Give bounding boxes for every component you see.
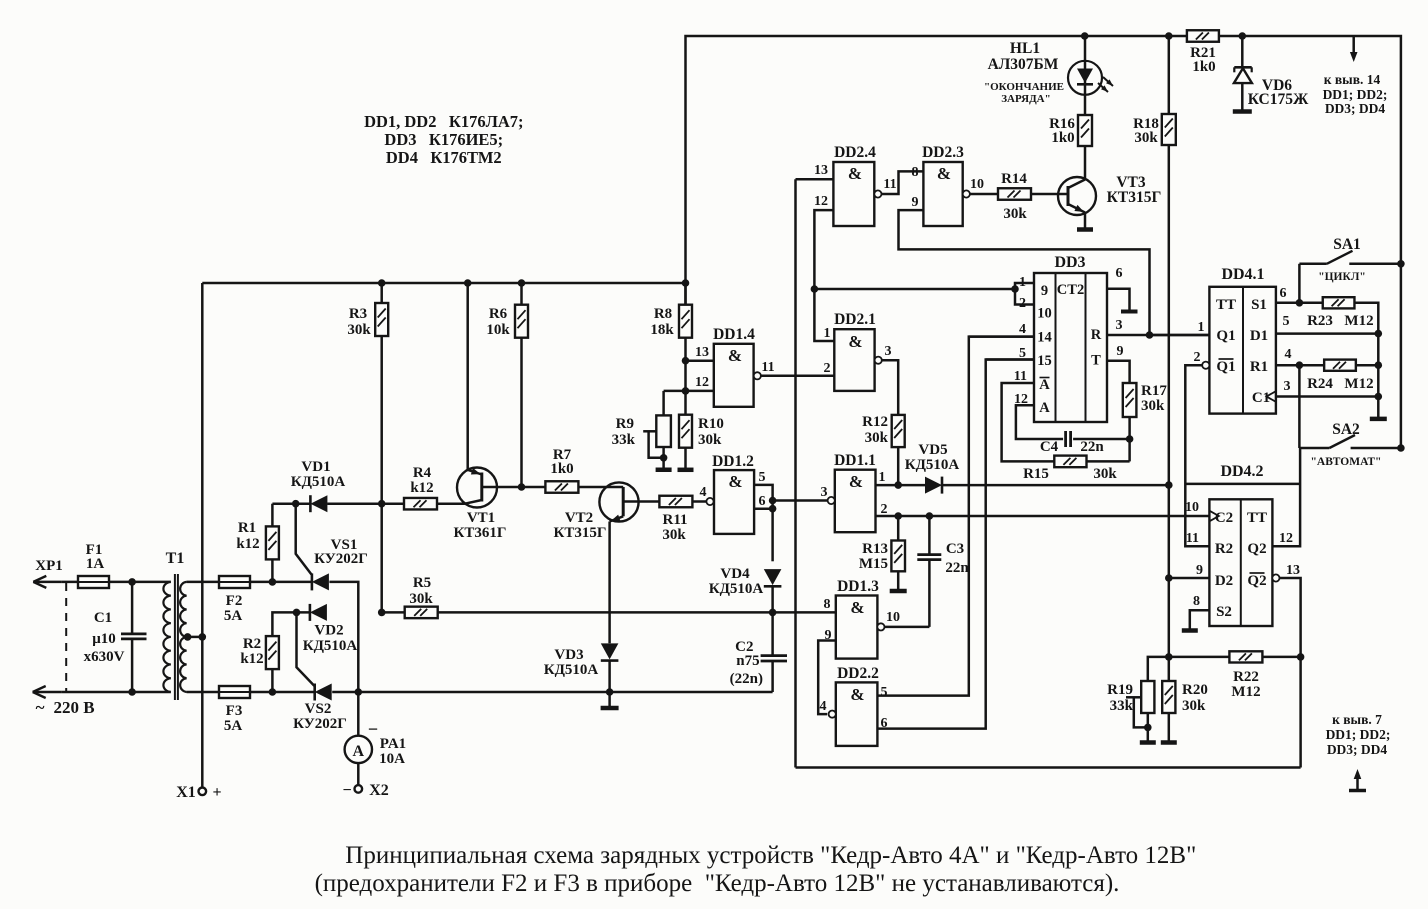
- svg-text:VS2: VS2: [305, 701, 332, 717]
- wire VS1 anode down: [329, 582, 358, 692]
- wire DD3 pins1-2 bracket: [1015, 283, 1034, 305]
- dynamic input C2 DD4.2: [1209, 511, 1218, 522]
- node R3 top: [378, 279, 386, 287]
- svg-text:DD2.4: DD2.4: [834, 144, 876, 161]
- resistor R20: [1162, 681, 1175, 741]
- svg-text:DD1, DD2 К176ЛА7;: DD1, DD2 К176ЛА7;: [364, 112, 523, 131]
- svg-text:10: 10: [1037, 306, 1052, 322]
- node VT1 emitter rail: [464, 279, 472, 287]
- ground DD4.2 pin8: [1182, 628, 1198, 633]
- label VD1: [291, 459, 346, 490]
- ground R20: [1161, 740, 1177, 745]
- svg-text:КД510А: КД510А: [291, 474, 346, 490]
- wire left vertical rail to X1: [201, 283, 204, 788]
- svg-text:18k: 18k: [650, 322, 674, 338]
- svg-text:4: 4: [1285, 347, 1292, 362]
- node pin6 tie: [769, 505, 777, 513]
- svg-text:30k: 30k: [409, 591, 433, 607]
- label pin5 DD2.2: [881, 685, 888, 700]
- node R6 bottom junction: [518, 483, 526, 491]
- wire DD1.1 pin2 long row to DD4.2: [876, 515, 1210, 518]
- resistor R19: [1141, 681, 1154, 713]
- svg-text:11: 11: [761, 360, 774, 375]
- resistor R16: [1078, 36, 1092, 146]
- node R9 bottom: [660, 447, 668, 469]
- node pin4/SA2: [1296, 361, 1304, 369]
- label R11 30k: [662, 512, 687, 543]
- wire secondary top to F2: [187, 581, 219, 584]
- wire long bus vertical: [794, 179, 797, 767]
- label pin11 DD1.4: [761, 360, 774, 375]
- svg-text:k12: k12: [236, 536, 259, 552]
- wire DD4.2 pin9: [1169, 577, 1210, 580]
- svg-text:C1: C1: [94, 610, 112, 626]
- svg-text:F3: F3: [226, 703, 243, 719]
- svg-text:M12: M12: [1344, 313, 1373, 329]
- node DD1.4 pin12: [682, 387, 690, 395]
- label DD1.1: [834, 452, 876, 469]
- labels DD4.2 right: [1247, 510, 1267, 589]
- labels DD4.2 left: [1215, 510, 1233, 620]
- svg-text:R13: R13: [862, 541, 888, 557]
- svg-text:2: 2: [824, 361, 831, 376]
- svg-text:Принципиальная схема зарядных: Принципиальная схема зарядных устройств …: [345, 842, 1196, 869]
- svg-text:22n: 22n: [1080, 439, 1104, 455]
- wire Q2 loop to SA2 node: [1185, 483, 1300, 486]
- node pin3/col: [1375, 393, 1383, 401]
- svg-text:4: 4: [1019, 322, 1026, 337]
- svg-text:1k0: 1k0: [1051, 130, 1074, 146]
- label pin6 DD2.2: [881, 716, 888, 731]
- wire DD2.2 pin5 to DD3 pin4: [877, 337, 1034, 696]
- svg-text:R4: R4: [413, 465, 432, 481]
- wire DD4.2 pin13 down: [1280, 578, 1301, 768]
- label VT3: [1107, 174, 1162, 206]
- svg-text:R2: R2: [1215, 541, 1233, 557]
- label DD4.1: [1221, 266, 1264, 283]
- label R16 1k0: [1049, 116, 1075, 146]
- node R6 top: [518, 279, 526, 287]
- wire SA2 column to pin12: [1272, 448, 1300, 546]
- label pin3 DD2.1: [885, 344, 892, 359]
- node pin6/SA1: [1296, 299, 1304, 307]
- svg-text:5: 5: [1283, 314, 1290, 329]
- transistor VT2: [599, 482, 660, 643]
- resistor R8: [679, 283, 692, 415]
- ground R23 column: [1370, 417, 1387, 422]
- label ~220V: [36, 698, 95, 717]
- svg-text:КД510А: КД510А: [544, 662, 599, 678]
- pin 10 bubble DD1.3: [877, 623, 884, 630]
- switch SA2: [1299, 435, 1401, 448]
- node R19 bottom: [1144, 713, 1152, 741]
- wire DD2.1 out to R12: [882, 360, 898, 415]
- svg-text:&: &: [848, 164, 862, 183]
- node SA1 right rail: [1397, 260, 1405, 268]
- pin 6 stub DD1.2: [754, 507, 773, 510]
- label pin9 DD4.2: [1196, 563, 1203, 578]
- svg-text:33k: 33k: [1110, 698, 1134, 714]
- wire R5 to DD1.3 pin8: [438, 611, 836, 614]
- wire DD2.4 pin12: [814, 210, 833, 289]
- svg-text:12: 12: [695, 375, 709, 390]
- svg-text:9: 9: [1041, 283, 1048, 299]
- label pin8 DD4.2: [1193, 594, 1200, 609]
- svg-text:SA1: SA1: [1333, 236, 1361, 253]
- svg-text:КТ315Г: КТ315Г: [1107, 189, 1162, 206]
- svg-text:&: &: [848, 332, 862, 351]
- svg-text:VD4: VD4: [720, 566, 750, 582]
- label pin2 DD1.1: [881, 502, 888, 517]
- wire PA1 to X2: [357, 763, 360, 785]
- svg-text:DD4.2: DD4.2: [1220, 463, 1263, 480]
- svg-text:M12: M12: [1231, 684, 1260, 700]
- svg-text:3: 3: [885, 344, 892, 359]
- svg-text:КУ202Г: КУ202Г: [293, 716, 347, 732]
- label pin8 DD2.3: [912, 165, 919, 180]
- svg-text:C4: C4: [1040, 439, 1059, 455]
- wire bottom bus to VD3/C2: [358, 691, 772, 694]
- label VT1: [454, 510, 507, 541]
- label R2 k12: [240, 636, 263, 667]
- resistor R6: [515, 283, 528, 487]
- svg-text:5: 5: [759, 470, 766, 485]
- wire R9 branch: [664, 391, 686, 416]
- label R21 1k0: [1190, 45, 1216, 75]
- wire DD3 pin12 to C4: [1016, 405, 1063, 439]
- wire lower input: [62, 691, 171, 694]
- diode VD5: [925, 477, 942, 494]
- svg-text:13: 13: [695, 345, 709, 360]
- wire right rail segment to SA2: [1400, 264, 1403, 448]
- svg-text:&: &: [850, 685, 864, 704]
- ic DD3 box: [1034, 273, 1107, 422]
- wire DD4.1 pin5: [1276, 332, 1378, 335]
- svg-text:10: 10: [970, 177, 984, 192]
- svg-text:DD1; DD2;: DD1; DD2;: [1326, 727, 1391, 742]
- svg-text:DD1.1: DD1.1: [834, 452, 876, 469]
- svg-text:+: +: [212, 784, 221, 801]
- resistor R24: [1299, 360, 1378, 371]
- svg-text:6: 6: [1280, 286, 1287, 301]
- wire DD2.1 pin1: [814, 289, 834, 341]
- svg-text:S1: S1: [1251, 297, 1267, 313]
- node R13 top: [894, 512, 902, 520]
- svg-text:1: 1: [879, 470, 886, 485]
- svg-text:n75: n75: [736, 653, 759, 669]
- wire DD3 pin6 termination: [1107, 289, 1138, 312]
- label pin9 DD2.3: [912, 195, 919, 210]
- label R20 30k: [1182, 682, 1208, 714]
- svg-text:DD3; DD4: DD3; DD4: [1327, 742, 1388, 757]
- resistor R18: [1162, 36, 1176, 681]
- wire R7 to VT2: [578, 486, 624, 489]
- svg-text:КТ361Г: КТ361Г: [454, 525, 507, 541]
- ic DD4.2 box: [1209, 499, 1272, 626]
- terminal X1: [199, 788, 207, 796]
- label pin6 DD4.1: [1280, 286, 1287, 301]
- capacitor C3: [917, 516, 941, 627]
- wire to ammeter: [357, 692, 360, 736]
- labels DD4.1 left: [1216, 297, 1236, 375]
- svg-text:R5: R5: [413, 575, 431, 591]
- label R8 18k: [650, 306, 674, 338]
- pin 13 bubble DD4.2: [1272, 574, 1279, 581]
- svg-text:R12: R12: [862, 414, 888, 430]
- svg-text:13: 13: [1286, 563, 1300, 578]
- connector XP1 arrow upper: [33, 576, 62, 588]
- label R5 30k: [409, 575, 433, 607]
- svg-text:&: &: [937, 164, 951, 183]
- diode VD2: [310, 604, 327, 621]
- label VT2: [554, 510, 607, 541]
- label DD1.4: [713, 326, 755, 343]
- label k vyv 7: [1326, 712, 1391, 757]
- wire DD4.1 pin1: [1150, 334, 1210, 337]
- svg-text:R1: R1: [1250, 359, 1268, 375]
- svg-text:x630V: x630V: [84, 649, 125, 665]
- wire DD1.3 out to C3: [885, 626, 930, 629]
- label DD2.4: [834, 144, 876, 161]
- ground R13: [890, 589, 907, 594]
- svg-text:R6: R6: [489, 306, 508, 322]
- label VD2: [303, 623, 358, 655]
- transformer T1 primary winding: [163, 582, 170, 692]
- wire DD2.2 pin6 to DD3 pin5: [877, 360, 1034, 729]
- node C4/R15/R17: [1126, 435, 1134, 443]
- labels DD3 right column: [1091, 327, 1102, 369]
- svg-text:R3: R3: [349, 306, 367, 322]
- svg-text:22n: 22n: [945, 560, 969, 576]
- labels DD3 ext pins left: [1014, 275, 1028, 407]
- svg-text:R8: R8: [654, 306, 672, 322]
- transformer T1 secondary winding: [180, 582, 186, 692]
- label pin3 DD1.1: [821, 485, 828, 500]
- svg-text:3: 3: [821, 485, 828, 500]
- svg-text:VD1: VD1: [301, 459, 330, 475]
- connector arrow lower input: [33, 686, 62, 698]
- node DD1.4 pin13: [682, 357, 690, 365]
- svg-text:10: 10: [886, 610, 900, 625]
- svg-text:VD3: VD3: [554, 647, 583, 663]
- svg-text:"ОКОНЧАНИЕ: "ОКОНЧАНИЕ: [984, 81, 1064, 93]
- svg-text:R23: R23: [1307, 313, 1333, 329]
- fuse F3: [219, 686, 250, 698]
- svg-text:30k: 30k: [1141, 398, 1165, 414]
- resistor R4: [382, 498, 465, 510]
- label pin10 DD4.2: [1185, 500, 1199, 515]
- pin 12 stub DD1.4: [686, 390, 714, 393]
- label R4 k12: [410, 465, 433, 496]
- label CT2: [1057, 282, 1084, 298]
- label T1: [166, 550, 185, 567]
- label VD5: [905, 442, 960, 473]
- label pin5 DD4.1: [1283, 314, 1290, 329]
- resistor R3: [375, 283, 388, 612]
- wire +9V top supply rail: [686, 36, 1401, 305]
- svg-text:DD1.4: DD1.4: [713, 326, 755, 343]
- resistor R13: [891, 516, 905, 590]
- svg-text:1: 1: [824, 326, 831, 341]
- gate DD1.1: [835, 470, 876, 533]
- thyristor VS2: [315, 684, 332, 701]
- svg-text:T: T: [1091, 353, 1101, 369]
- svg-text:30k: 30k: [1134, 130, 1158, 146]
- wire DD2.3 pin9: [899, 210, 1150, 335]
- rheostat tap R19: [1126, 697, 1148, 727]
- svg-text:3: 3: [1116, 318, 1123, 333]
- label R10 30k: [698, 416, 724, 448]
- label pin1 DD4.1: [1198, 320, 1205, 335]
- svg-text:8: 8: [912, 165, 919, 180]
- label R6 10k: [486, 306, 510, 338]
- node VD5/R18: [1165, 481, 1173, 489]
- resistor R5: [405, 607, 438, 619]
- svg-text:~: ~: [36, 698, 45, 717]
- svg-text:3: 3: [1284, 379, 1291, 394]
- svg-text:−: −: [368, 719, 378, 739]
- label R17 30k: [1141, 383, 1167, 414]
- svg-text:k12: k12: [410, 480, 433, 496]
- ic DD4.1 box: [1209, 287, 1276, 414]
- svg-text:КТ315Г: КТ315Г: [554, 525, 607, 541]
- wire VD2 row left: [272, 612, 310, 636]
- svg-text:&: &: [849, 472, 863, 491]
- wire R5 row: [382, 611, 405, 614]
- svg-text:DD4.1: DD4.1: [1221, 266, 1264, 283]
- node pin3/pin9gate: [1146, 331, 1154, 339]
- resistor R17: [1123, 383, 1137, 439]
- node junction VD6 on top rail: [1239, 32, 1247, 40]
- pin 2 bubble DD4.1: [1202, 362, 1209, 369]
- svg-text:30k: 30k: [1093, 466, 1117, 482]
- label pin10 DD2.3: [970, 177, 984, 192]
- resistor R15: [1054, 439, 1129, 467]
- svg-text:DD3 К176ИЕ5;: DD3 К176ИЕ5;: [384, 130, 503, 149]
- wire secondary bottom to F3: [187, 691, 219, 694]
- resistor R7: [545, 481, 578, 493]
- transistor VT3: [1058, 146, 1096, 228]
- svg-text:"ЦИКЛ": "ЦИКЛ": [1318, 271, 1366, 283]
- svg-text:(предохранители F2 и F3 в приб: (предохранители F2 и F3 в приборе "Кедр-…: [315, 870, 1120, 897]
- pin 3 bubble DD2.1: [875, 357, 882, 364]
- label DD2.3: [922, 144, 964, 161]
- fuse F1: [78, 576, 109, 588]
- svg-text:1А: 1А: [86, 556, 105, 572]
- svg-text:6: 6: [759, 494, 766, 509]
- svg-text:CT2: CT2: [1057, 282, 1084, 298]
- pin 4 bubble DD1.2: [706, 498, 713, 505]
- resistor R22: [1229, 651, 1300, 662]
- svg-text:−: −: [342, 782, 351, 799]
- svg-text:R17: R17: [1141, 383, 1167, 399]
- wire DD1.3 pin9 to DD2.2 pin4: [818, 641, 836, 715]
- label VD3: [544, 647, 599, 678]
- svg-text:9: 9: [1196, 563, 1203, 578]
- ground VT3: [1077, 227, 1093, 232]
- label pin1 DD2.1: [824, 326, 831, 341]
- svg-text:6: 6: [1116, 266, 1123, 281]
- svg-text:КД510А: КД510А: [709, 581, 764, 597]
- wire DD1.2 output column: [771, 501, 774, 562]
- wire DD1.1 pin1 row: [876, 484, 927, 487]
- label F3 5A: [224, 703, 243, 734]
- wire XP1 dashed bracket: [65, 583, 67, 691]
- label SA2: [1311, 421, 1382, 468]
- diode VD1: [310, 495, 327, 512]
- svg-text:S2: S2: [1216, 604, 1232, 620]
- svg-text:9: 9: [1117, 344, 1124, 359]
- svg-text:M12: M12: [1344, 376, 1373, 392]
- labels DD4.1 right: [1250, 297, 1270, 406]
- svg-text:R14: R14: [1001, 171, 1027, 187]
- label pin13 DD2.4: [814, 163, 828, 178]
- svg-text:5А: 5А: [224, 718, 243, 734]
- diode VD3: [601, 643, 619, 692]
- label pin9 DD3: [1117, 344, 1124, 359]
- label pin12 DD2.4: [814, 194, 828, 209]
- svg-text:M15: M15: [859, 556, 888, 572]
- node junction HL1 on top rail: [1081, 32, 1089, 40]
- node R2 bottom junction: [269, 688, 277, 696]
- wire to DD3 pins 1-2: [814, 288, 1015, 291]
- label SA1: [1318, 236, 1366, 283]
- wire VD5 to R18 column: [942, 484, 1169, 487]
- svg-text:R15: R15: [1023, 466, 1049, 482]
- node junction R8 top on mid rail: [682, 279, 690, 287]
- node C3 top: [926, 512, 934, 520]
- label C2: [730, 639, 763, 687]
- label HL1: [984, 40, 1064, 105]
- svg-text:DD1.2: DD1.2: [712, 453, 754, 470]
- svg-text:10: 10: [1185, 500, 1199, 515]
- svg-text:TT: TT: [1216, 297, 1236, 313]
- gate DD1.4: [714, 344, 754, 407]
- pin 11 bubble DD2.4: [874, 190, 881, 197]
- terminal X2: [355, 785, 363, 793]
- svg-text:XP1: XP1: [35, 558, 63, 574]
- wire DD3 pin4 stub: [969, 335, 1034, 338]
- node R3/R5 junction: [378, 609, 386, 617]
- node R22 right: [1297, 653, 1305, 661]
- svg-text:КУ202Г: КУ202Г: [314, 551, 368, 567]
- wire DD2.3 out to R14: [970, 193, 999, 196]
- svg-text:R19: R19: [1107, 682, 1133, 698]
- svg-text:220 В: 220 В: [53, 698, 94, 717]
- svg-text:&: &: [728, 346, 742, 365]
- svg-text:Q1: Q1: [1216, 328, 1235, 344]
- label pin1 DD1.1: [879, 470, 886, 485]
- wire R22 row: [1148, 657, 1230, 681]
- gate DD2.2: [836, 682, 878, 746]
- node pin9/R18col: [1165, 574, 1173, 582]
- resistor R21: [1187, 30, 1219, 42]
- label k vyv 14: [1323, 72, 1388, 116]
- wire DD4.1 pin6: [1276, 302, 1300, 305]
- label C3 22n: [945, 541, 969, 576]
- svg-text:1k0: 1k0: [1192, 59, 1215, 75]
- label R15 30k: [1023, 466, 1117, 482]
- ground VD6: [1233, 109, 1252, 114]
- svg-text:КД510А: КД510А: [905, 457, 960, 473]
- label pin13 DD1.4: [695, 345, 709, 360]
- IC type listing DD1-DD4: [364, 112, 523, 167]
- svg-text:2: 2: [1194, 350, 1201, 365]
- thyristor VS2 gate: [297, 612, 315, 685]
- svg-text:R9: R9: [616, 416, 634, 432]
- label pin11 DD2.4: [883, 177, 896, 192]
- svg-text:TT: TT: [1247, 510, 1267, 526]
